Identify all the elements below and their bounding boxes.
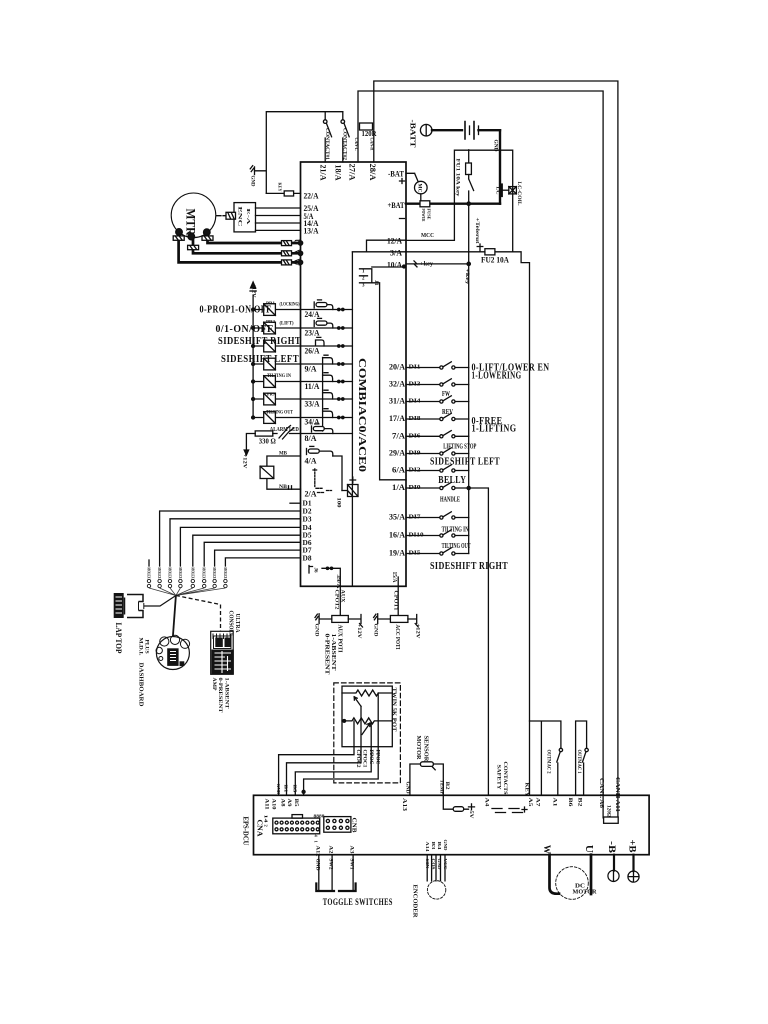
svg-text:PR1: PR1 bbox=[266, 301, 276, 306]
svg-text:13/A: 13/A bbox=[304, 226, 320, 236]
svg-text:J6: J6 bbox=[313, 568, 318, 574]
svg-text:A4: A4 bbox=[483, 798, 489, 807]
svg-text:TEMP: TEMP bbox=[438, 780, 443, 795]
svg-text:MC: MC bbox=[416, 184, 421, 193]
svg-text:0-PRESENT: 0-PRESENT bbox=[217, 678, 223, 713]
svg-text:DI8: DI8 bbox=[409, 416, 421, 422]
svg-text:2/A: 2/A bbox=[305, 489, 318, 499]
svg-text:29/A: 29/A bbox=[389, 448, 406, 458]
svg-text:DI5: DI5 bbox=[409, 551, 421, 557]
svg-text:8/A: 8/A bbox=[305, 433, 318, 443]
svg-text:CANH A11: CANH A11 bbox=[614, 777, 620, 812]
svg-text:A12: A12 bbox=[314, 846, 319, 858]
svg-text:TILTING IN: TILTING IN bbox=[267, 373, 291, 379]
svg-text:A2: A2 bbox=[327, 846, 332, 855]
svg-text:10/A: 10/A bbox=[387, 259, 403, 269]
svg-text:PLUS: PLUS bbox=[144, 640, 149, 654]
svg-text:23/A: 23/A bbox=[305, 328, 321, 338]
svg-text:GND: GND bbox=[276, 784, 281, 796]
svg-text:ULTRA: ULTRA bbox=[234, 614, 240, 634]
svg-text:D6: D6 bbox=[303, 539, 313, 547]
svg-text:DI9: DI9 bbox=[409, 451, 421, 457]
svg-text:B3: B3 bbox=[431, 842, 436, 851]
svg-text:MB: MB bbox=[279, 451, 288, 456]
svg-text:W: W bbox=[293, 258, 302, 266]
svg-text:+12V: +12V bbox=[414, 624, 420, 639]
svg-text:A7: A7 bbox=[535, 798, 541, 807]
svg-text:SW1: SW1 bbox=[348, 859, 353, 871]
svg-text:KEY: KEY bbox=[523, 783, 529, 797]
svg-text:SIDESHIFT RIGHT: SIDESHIFT RIGHT bbox=[430, 561, 508, 572]
svg-text:(LIFT): (LIFT) bbox=[280, 322, 294, 327]
svg-text:A3: A3 bbox=[348, 846, 353, 855]
svg-text:8888: 8888 bbox=[314, 814, 326, 819]
svg-text:J1: J1 bbox=[373, 280, 379, 286]
svg-text:9/A: 9/A bbox=[305, 364, 318, 374]
svg-text:A14: A14 bbox=[425, 842, 430, 853]
svg-text:26/A: 26/A bbox=[305, 346, 321, 356]
svg-text:TWIN 5K POT: TWIN 5K POT bbox=[391, 688, 397, 732]
svg-text:MOLEX: MOLEX bbox=[147, 568, 152, 579]
svg-text:11/A: 11/A bbox=[305, 381, 321, 391]
svg-text:CPOC2: CPOC2 bbox=[355, 750, 360, 769]
svg-text:(LOCKING): (LOCKING) bbox=[280, 303, 300, 308]
svg-text:D4: D4 bbox=[303, 524, 313, 532]
svg-text:32/A: 32/A bbox=[389, 379, 406, 389]
svg-text:-BAT: -BAT bbox=[388, 169, 404, 179]
svg-text:LAP TOP: LAP TOP bbox=[114, 623, 123, 654]
svg-text:DI2: DI2 bbox=[409, 468, 421, 474]
svg-text:D7: D7 bbox=[303, 547, 313, 555]
svg-text:MOTOR: MOTOR bbox=[415, 736, 421, 761]
svg-text:18/A: 18/A bbox=[334, 165, 343, 181]
svg-text:D1: D1 bbox=[303, 500, 313, 508]
svg-text:12/A: 12/A bbox=[387, 236, 403, 246]
svg-text:6/A: 6/A bbox=[392, 465, 406, 475]
svg-text:MOTOR: MOTOR bbox=[573, 888, 597, 895]
svg-text:B6: B6 bbox=[567, 798, 573, 807]
svg-text:0-PRESENT: 0-PRESENT bbox=[324, 634, 330, 675]
svg-text:B1: B1 bbox=[284, 785, 289, 794]
svg-text:TILTING OUT: TILTING OUT bbox=[266, 410, 293, 416]
svg-text:CONSOLE: CONSOLE bbox=[228, 611, 234, 637]
svg-text:NB: NB bbox=[279, 485, 288, 490]
svg-text:27/A: 27/A bbox=[348, 164, 357, 181]
svg-text:M.D.I.: M.D.I. bbox=[138, 638, 143, 657]
svg-text:D2: D2 bbox=[303, 508, 313, 516]
svg-text:D3: D3 bbox=[303, 515, 313, 523]
svg-text:+12V: +12V bbox=[242, 454, 248, 469]
svg-text:COS: COS bbox=[431, 859, 436, 871]
svg-text:HANDLE: HANDLE bbox=[440, 496, 460, 504]
svg-text:A9: A9 bbox=[286, 799, 291, 808]
svg-text:LIFTING STOP: LIFTING STOP bbox=[443, 443, 476, 451]
svg-text:CNB: CNB bbox=[350, 818, 357, 834]
svg-text:120Ω: 120Ω bbox=[606, 805, 612, 817]
svg-text:AMP: AMP bbox=[211, 678, 216, 691]
svg-text:+12V: +12V bbox=[251, 284, 256, 298]
svg-text:330 Ω: 330 Ω bbox=[259, 438, 276, 446]
svg-text:16/A: 16/A bbox=[389, 530, 406, 540]
svg-text:W: W bbox=[542, 845, 552, 854]
svg-text:COMBIAC0/ACE0: COMBIAC0/ACE0 bbox=[356, 358, 368, 473]
svg-text:CNA: CNA bbox=[256, 820, 264, 837]
svg-text:100: 100 bbox=[336, 498, 341, 509]
svg-text:CPOT1: CPOT1 bbox=[393, 591, 399, 611]
svg-text:POWER: POWER bbox=[421, 209, 426, 223]
svg-text:A5: A5 bbox=[527, 798, 533, 807]
svg-text:REV: REV bbox=[442, 408, 453, 416]
svg-text:GND: GND bbox=[314, 859, 319, 871]
svg-text:-B: -B bbox=[607, 841, 617, 853]
svg-text:MOLEX: MOLEX bbox=[190, 568, 195, 579]
svg-text:24/A: 24/A bbox=[305, 309, 321, 319]
svg-text:39/A: 39/A bbox=[335, 575, 341, 589]
svg-text:DI3: DI3 bbox=[409, 382, 421, 388]
svg-text:31/A: 31/A bbox=[389, 396, 406, 406]
svg-text:DI6: DI6 bbox=[409, 433, 421, 439]
svg-text:3/A: 3/A bbox=[390, 247, 403, 257]
svg-text:GND: GND bbox=[437, 859, 442, 871]
svg-text:U: U bbox=[293, 239, 302, 245]
svg-text:LC-COIL: LC-COIL bbox=[516, 182, 522, 206]
svg-text:1-LIFTING: 1-LIFTING bbox=[472, 424, 517, 435]
svg-text:7/A: 7/A bbox=[392, 430, 406, 440]
svg-text:GND: GND bbox=[493, 140, 498, 152]
svg-text:+BAT: +BAT bbox=[388, 200, 405, 210]
svg-text:B5: B5 bbox=[293, 799, 298, 808]
svg-text:33/A: 33/A bbox=[305, 399, 321, 409]
svg-text:0-PROP1-ON/OFF: 0-PROP1-ON/OFF bbox=[200, 305, 272, 316]
svg-text:CPOC1: CPOC1 bbox=[362, 750, 367, 769]
svg-text:CPOT2: CPOT2 bbox=[333, 590, 339, 610]
svg-text:CONTACT#1: CONTACT#1 bbox=[324, 128, 330, 160]
svg-text:GND: GND bbox=[443, 840, 448, 852]
svg-text:OUTMAC 2: OUTMAC 2 bbox=[546, 750, 552, 774]
svg-text:OUTMAC 1: OUTMAC 1 bbox=[576, 750, 582, 774]
svg-text:B2: B2 bbox=[444, 782, 449, 791]
svg-text:SIN: SIN bbox=[425, 859, 430, 870]
svg-text:TILTING OUT: TILTING OUT bbox=[442, 542, 471, 550]
svg-text:VCC: VCC bbox=[443, 859, 448, 870]
svg-text:28/A: 28/A bbox=[368, 164, 377, 181]
svg-text:MOLEX: MOLEX bbox=[168, 568, 173, 579]
svg-text:AUX: AUX bbox=[339, 590, 345, 603]
svg-text:FU1 10A key: FU1 10A key bbox=[455, 159, 461, 197]
svg-text:A8: A8 bbox=[280, 799, 285, 808]
svg-text:-BATT: -BATT bbox=[409, 120, 417, 148]
svg-text:5V: 5V bbox=[468, 811, 474, 819]
svg-text:LC: LC bbox=[495, 187, 500, 195]
svg-text:DI0: DI0 bbox=[409, 485, 421, 491]
svg-text:ENC: ENC bbox=[237, 207, 243, 227]
svg-text:MOLEX: MOLEX bbox=[202, 568, 207, 579]
svg-text:GND: GND bbox=[250, 176, 256, 187]
svg-text:35/A: 35/A bbox=[389, 512, 406, 522]
svg-text:EPS-DCU: EPS-DCU bbox=[242, 817, 250, 846]
svg-text:MTR: MTR bbox=[184, 209, 199, 237]
svg-text:SENSOR: SENSOR bbox=[422, 736, 428, 763]
svg-text:AUX POTI: AUX POTI bbox=[337, 625, 343, 654]
svg-text:MOLEX: MOLEX bbox=[157, 568, 162, 579]
svg-text:A1: A1 bbox=[551, 798, 557, 807]
svg-text:GND: GND bbox=[404, 782, 409, 794]
svg-text:1-LOWERING: 1-LOWERING bbox=[472, 371, 522, 382]
svg-text:SIDESHIFT LEFT: SIDESHIFT LEFT bbox=[430, 457, 500, 468]
svg-text:V: V bbox=[293, 249, 302, 255]
svg-text:PPOC: PPOC bbox=[375, 750, 380, 765]
svg-text:CAN-L: CAN-L bbox=[353, 138, 359, 151]
svg-text:15/A: 15/A bbox=[391, 572, 397, 584]
svg-text:DI4: DI4 bbox=[409, 399, 421, 405]
svg-text:34/A: 34/A bbox=[305, 417, 321, 427]
svg-text:MOLEX: MOLEX bbox=[178, 568, 183, 579]
svg-text:GND: GND bbox=[314, 624, 320, 637]
svg-text:GND: GND bbox=[372, 624, 378, 637]
svg-text:DI10: DI10 bbox=[409, 533, 424, 539]
svg-text:B5: B5 bbox=[293, 785, 298, 794]
svg-text:MCC: MCC bbox=[421, 232, 434, 239]
svg-text:22/A: 22/A bbox=[304, 190, 320, 200]
svg-text:0/1-ON/OFF: 0/1-ON/OFF bbox=[216, 324, 274, 335]
svg-text:FU2 10A: FU2 10A bbox=[481, 255, 510, 265]
svg-text:KEY: KEY bbox=[278, 183, 283, 193]
svg-text:19/A: 19/A bbox=[389, 548, 406, 558]
svg-text:A13: A13 bbox=[401, 798, 407, 811]
svg-text:CONTACTS: CONTACTS bbox=[502, 762, 508, 795]
svg-text:4/A: 4/A bbox=[305, 456, 318, 466]
svg-text:DI7: DI7 bbox=[409, 515, 421, 521]
svg-text:B4: B4 bbox=[437, 842, 442, 851]
svg-text:PPOC: PPOC bbox=[368, 750, 373, 765]
svg-text:1-ABSENT: 1-ABSENT bbox=[223, 678, 229, 709]
svg-text:20/A: 20/A bbox=[389, 362, 406, 372]
svg-text:CAN-H: CAN-H bbox=[369, 138, 375, 152]
svg-text:+key: +key bbox=[464, 269, 470, 285]
svg-text:DI1: DI1 bbox=[409, 365, 421, 371]
svg-text:A10: A10 bbox=[271, 799, 276, 811]
svg-text:MOLEX: MOLEX bbox=[212, 568, 217, 579]
svg-text:PRN: PRN bbox=[267, 392, 277, 397]
svg-text:1/A: 1/A bbox=[392, 482, 406, 492]
svg-text:+key: +key bbox=[420, 261, 434, 268]
svg-text:120R: 120R bbox=[362, 130, 378, 138]
svg-text:+B: +B bbox=[627, 840, 637, 853]
svg-text:ALARM LED: ALARM LED bbox=[270, 426, 299, 433]
svg-text:17/A: 17/A bbox=[389, 413, 406, 423]
svg-text:E-A: E-A bbox=[246, 209, 251, 227]
svg-text:TILTING IN: TILTING IN bbox=[442, 526, 469, 534]
svg-text:+12V: +12V bbox=[356, 624, 362, 639]
svg-text:ENCODER: ENCODER bbox=[412, 885, 419, 918]
svg-text:FUSE: FUSE bbox=[426, 209, 431, 220]
svg-text:ACC POTI: ACC POTI bbox=[394, 625, 400, 651]
svg-text:21/A: 21/A bbox=[319, 165, 328, 181]
svg-text:1-ABSENT: 1-ABSENT bbox=[330, 634, 336, 671]
svg-text:TOGGLE SWITCHES: TOGGLE SWITCHES bbox=[323, 898, 393, 908]
svg-text:+Telerut: +Telerut bbox=[474, 218, 480, 244]
svg-text:SIDESHIFT RIGHT: SIDESHIFT RIGHT bbox=[218, 336, 301, 347]
svg-text:D8: D8 bbox=[303, 554, 313, 562]
svg-text:SAFETY: SAFETY bbox=[495, 765, 501, 790]
svg-text:FW: FW bbox=[442, 390, 450, 398]
svg-text:U: U bbox=[583, 845, 594, 853]
svg-text:B2: B2 bbox=[576, 798, 582, 807]
svg-text:SW2: SW2 bbox=[327, 859, 332, 871]
svg-text:BELLY: BELLY bbox=[438, 475, 466, 486]
svg-text:MOLEX: MOLEX bbox=[223, 568, 228, 579]
svg-text:SIDESHIFT LEFT: SIDESHIFT LEFT bbox=[221, 354, 299, 365]
svg-text:PR2: PR2 bbox=[266, 319, 276, 324]
svg-text:CANL A6: CANL A6 bbox=[598, 778, 604, 808]
svg-text:CONTACT#2: CONTACT#2 bbox=[342, 128, 348, 160]
svg-text:A11: A11 bbox=[264, 799, 269, 811]
svg-text:DASHBOARD: DASHBOARD bbox=[138, 663, 144, 708]
